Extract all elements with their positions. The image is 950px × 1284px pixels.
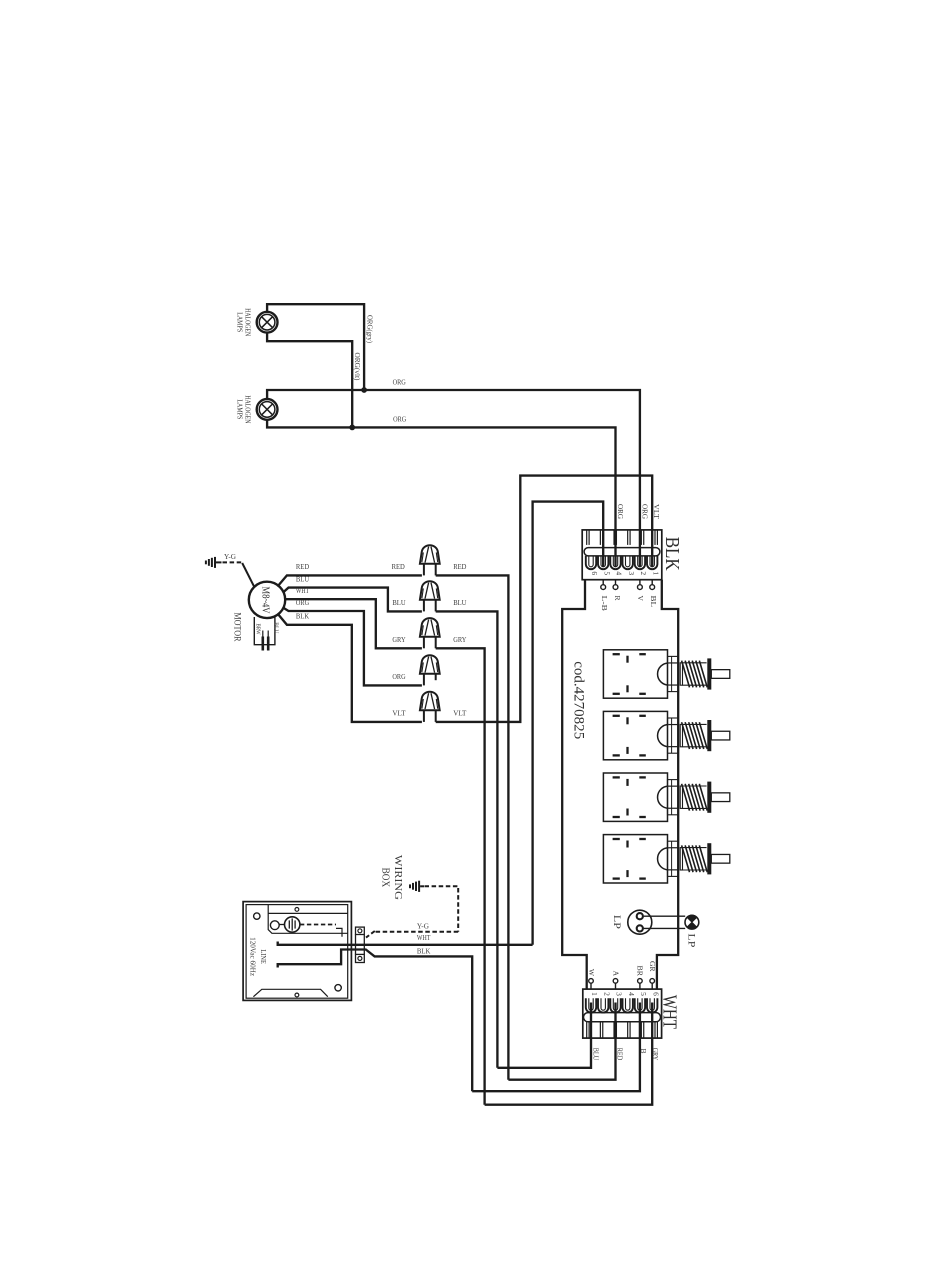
- svg-text:RED: RED: [453, 562, 466, 571]
- label WHT (motor): [296, 586, 309, 595]
- label BR: [636, 966, 645, 977]
- label MOTOR: [232, 613, 242, 643]
- svg-text:GRY: GRY: [392, 635, 405, 644]
- svg-text:RED: RED: [296, 562, 309, 571]
- lamp plug LP: [628, 910, 652, 934]
- wire lamp1 top to ORG(gry): [267, 304, 364, 390]
- label VLT at BLK pin1: [652, 504, 660, 520]
- dashed ground wire inside box: [300, 924, 336, 926]
- label ORG at BLK pin4: [616, 504, 624, 519]
- svg-text:Y-G: Y-G: [224, 552, 237, 561]
- junction dot ORG(vlt)/ORG: [349, 425, 355, 431]
- wiring box bottom slot: [253, 985, 341, 997]
- label V: [636, 596, 645, 602]
- wire lamp2 top ORG to BLK pin2: [267, 390, 640, 567]
- label RED (bottom): [616, 1048, 625, 1061]
- label Y-G (box): [417, 921, 430, 930]
- svg-text:R: R: [613, 596, 622, 601]
- wire nut VLT: [420, 692, 440, 722]
- svg-text:GR: GR: [648, 961, 657, 972]
- wire motor WHT to GRY row: [285, 599, 422, 648]
- svg-text:ORG(vlt): ORG(vlt): [353, 353, 362, 381]
- wire motor ORG: [283, 608, 422, 686]
- svg-text:LP: LP: [611, 915, 621, 929]
- svg-text:BLU: BLU: [272, 622, 279, 633]
- dashed wire Y-G to motor: [223, 561, 243, 563]
- label BLK (motor): [296, 612, 309, 621]
- svg-text:BLU: BLU: [392, 598, 405, 607]
- label Y-G (motor): [224, 552, 237, 561]
- label ORG (motor): [296, 598, 309, 607]
- svg-text:MOTOR: MOTOR: [232, 613, 242, 643]
- label W: [587, 969, 596, 977]
- svg-text:B: B: [639, 1048, 648, 1053]
- svg-text:5: 5: [639, 992, 648, 996]
- svg-text:VLT: VLT: [392, 709, 405, 718]
- label WHT (cord): [417, 933, 431, 942]
- label GRY (left): [392, 635, 405, 644]
- wire RED bottom to WHT pin3: [508, 1003, 615, 1080]
- label GRY (bottom): [651, 1048, 660, 1061]
- svg-text:L-B: L-B: [600, 596, 609, 611]
- cable clamp: [356, 927, 365, 962]
- svg-text:ORG: ORG: [393, 377, 406, 386]
- svg-text:GRY: GRY: [453, 635, 466, 644]
- motor capacitor plates: [263, 631, 268, 651]
- svg-text:BLU: BLU: [296, 574, 309, 583]
- wire nut GRY: [420, 618, 440, 648]
- label BLK (cord): [417, 947, 431, 956]
- label cod.4270825: [571, 661, 587, 739]
- svg-text:BLU: BLU: [453, 598, 466, 607]
- halogen lamp 2: [257, 399, 278, 420]
- svg-text:3: 3: [615, 992, 624, 996]
- svg-text:ORG(gry): ORG(gry): [366, 315, 375, 343]
- label LP (plug): [611, 915, 621, 929]
- svg-text:RED: RED: [616, 1048, 625, 1061]
- svg-text:4: 4: [615, 571, 624, 575]
- svg-text:M8~4V: M8~4V: [260, 587, 271, 615]
- label RED (motor): [296, 562, 309, 571]
- wire B bottom to WHT pin5: [472, 1003, 640, 1092]
- halogen lamp 1: [257, 312, 278, 333]
- svg-text:WIRING: WIRING: [392, 855, 404, 900]
- svg-text:ORG: ORG: [393, 415, 406, 424]
- svg-text:BLK: BLK: [661, 537, 683, 571]
- svg-text:1: 1: [590, 992, 599, 996]
- svg-text:BOX: BOX: [379, 868, 391, 888]
- wire nut ORG (capped): [420, 655, 440, 685]
- wire VLT run to BLK pin1: [436, 476, 653, 722]
- label HALOGEN LAMPS 1: [236, 308, 253, 336]
- label A: [612, 971, 621, 977]
- wiring box inner: [246, 905, 348, 999]
- label ORG lower: [393, 415, 406, 424]
- wiring box screw mid: [270, 921, 279, 930]
- label LP (indicator): [686, 933, 696, 947]
- push-button switch S3: [603, 773, 729, 821]
- board outline right: [657, 580, 678, 989]
- svg-text:V: V: [636, 596, 645, 602]
- svg-text:ORG: ORG: [616, 504, 624, 519]
- push-button switch S1: [603, 650, 729, 698]
- wiring box compartment: [268, 905, 348, 934]
- label BLU (left): [392, 598, 405, 607]
- label GR: [648, 961, 657, 972]
- svg-text:BL: BL: [649, 596, 658, 608]
- indicator light LP: [685, 915, 699, 929]
- ground symbol Y-G (wiring box): [410, 881, 424, 892]
- wire motor BLU: [283, 588, 422, 612]
- label ORG upper: [393, 377, 406, 386]
- junction dot ORG(gry)/ORG: [361, 387, 367, 393]
- wire lamp1 bottom to ORG(vlt): [267, 333, 352, 428]
- svg-text:ORG: ORG: [296, 598, 309, 607]
- svg-text:WHT: WHT: [296, 586, 309, 595]
- wiring box screw top-left: [254, 913, 260, 919]
- ground screw: [279, 917, 300, 932]
- svg-text:LAMPS: LAMPS: [236, 399, 245, 419]
- svg-text:ORG: ORG: [640, 504, 648, 519]
- push-button switch S2: [603, 711, 729, 759]
- svg-text:VLT: VLT: [453, 709, 466, 718]
- wiring box outer: [243, 902, 351, 1001]
- svg-text:ORG: ORG: [392, 672, 405, 681]
- label ORG at BLK pin2: [640, 504, 648, 519]
- push-button switch S4: [603, 835, 729, 883]
- wire RED run to WHT pin3: [436, 575, 509, 1079]
- svg-text:2: 2: [639, 571, 648, 575]
- label BLU (right): [453, 598, 466, 607]
- wire motor BLK to VLT row: [278, 614, 422, 722]
- label M8~4V: [260, 587, 271, 615]
- label ORG(gry): [366, 315, 375, 343]
- motor capacitor box: [254, 617, 279, 645]
- wiring box shelf line: [268, 912, 348, 914]
- label LINE 120Vac 60Hz: [248, 937, 267, 976]
- wire nut RED: [420, 545, 440, 575]
- wire GRY run to WHT pin6: [436, 648, 485, 1104]
- label HALOGEN LAMPS 2: [236, 395, 253, 423]
- svg-text:2: 2: [602, 992, 611, 996]
- connector WHT pin numbers: [590, 992, 660, 996]
- label VLT (right): [453, 709, 466, 718]
- svg-text:VLT: VLT: [652, 504, 660, 520]
- label BL: [649, 596, 658, 608]
- svg-text:5: 5: [602, 571, 611, 575]
- label ORG (left): [392, 672, 405, 681]
- dashed wire Y-G horizontal: [375, 931, 458, 933]
- svg-text:LAMPS: LAMPS: [236, 312, 245, 332]
- svg-text:WHT: WHT: [658, 995, 680, 1029]
- BLK pin terminals circles: [601, 580, 655, 590]
- label WIRING BOX: [379, 855, 404, 900]
- board outline left: [562, 580, 587, 989]
- connector WHT body: [583, 989, 662, 1038]
- label B (bottom): [639, 1048, 648, 1053]
- wire WHT line cord: [278, 942, 533, 945]
- svg-text:WHT: WHT: [417, 933, 431, 942]
- dashed wire Y-G diagonal to clamp: [366, 931, 375, 938]
- label GRY (right): [453, 635, 466, 644]
- wire GRY bottom to WHT pin6: [485, 1003, 653, 1105]
- wire lamp2 bottom ORG to BLK pin4: [267, 420, 615, 567]
- ground wire channel: [336, 928, 342, 936]
- svg-text:3: 3: [627, 571, 636, 575]
- label R: [613, 596, 622, 601]
- label BLU (motor): [296, 574, 309, 583]
- wire BLK line cord to WHT pin5: [278, 950, 473, 1092]
- svg-text:LINE: LINE: [259, 949, 268, 964]
- svg-text:LP: LP: [686, 933, 696, 947]
- wiring box hole top: [295, 908, 299, 912]
- label L-B: [600, 596, 609, 611]
- svg-text:BLK: BLK: [417, 947, 431, 956]
- svg-text:BR: BR: [636, 966, 645, 977]
- svg-text:6: 6: [590, 571, 599, 575]
- ground symbol Y-G (motor): [206, 557, 222, 568]
- svg-text:A: A: [612, 971, 621, 977]
- svg-text:120Vac 60Hz: 120Vac 60Hz: [248, 937, 257, 976]
- wire WHT-box run to BLK pin5: [533, 502, 604, 945]
- wires LP to indicator: [644, 916, 686, 928]
- wire nut BLU: [420, 581, 440, 611]
- svg-text:cod.4270825: cod.4270825: [571, 661, 587, 739]
- connector BLK body: [582, 530, 662, 580]
- connector BLK pin numbers: [590, 571, 660, 575]
- WHT pin terminal circles: [589, 979, 655, 989]
- dashed wire elbow down: [457, 888, 459, 932]
- svg-text:1: 1: [651, 571, 660, 575]
- label BLU (bottom): [591, 1048, 600, 1061]
- svg-text:4: 4: [627, 992, 636, 996]
- svg-text:W: W: [587, 969, 596, 977]
- wire ground diagonal to motor: [242, 563, 254, 587]
- wire BLU bottom to WHT pin1: [497, 1003, 591, 1068]
- svg-text:BLU: BLU: [591, 1048, 600, 1061]
- svg-text:GRY: GRY: [651, 1048, 660, 1061]
- motor circle M1: [249, 582, 285, 618]
- label WHT: [658, 995, 680, 1029]
- label BLK: [661, 537, 683, 571]
- svg-text:BLK: BLK: [296, 612, 309, 621]
- label RED (left): [392, 562, 405, 571]
- label ORG(vlt): [353, 353, 362, 381]
- dashed wire ground to elbow: [425, 885, 459, 887]
- wire motor RED: [278, 575, 422, 586]
- svg-text:Y-G: Y-G: [417, 921, 430, 930]
- wire BLU run to WHT pin1: [436, 611, 498, 1067]
- svg-text:RED: RED: [392, 562, 405, 571]
- svg-text:BRW: BRW: [255, 624, 262, 635]
- label VLT (left): [392, 709, 405, 718]
- label RED (right): [453, 562, 466, 571]
